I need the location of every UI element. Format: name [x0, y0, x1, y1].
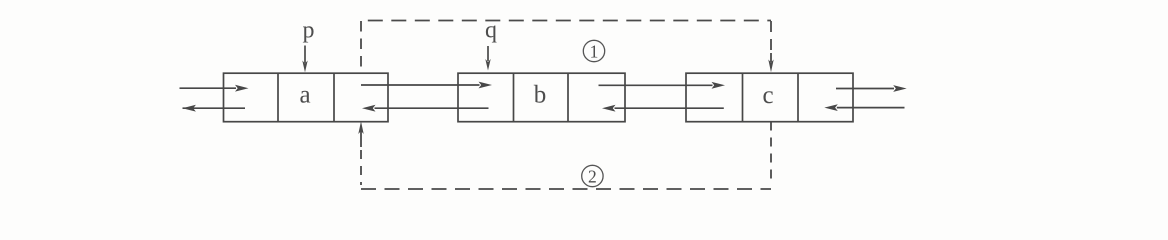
svg-text:p: p	[303, 18, 315, 44]
svg-text:2: 2	[588, 167, 597, 187]
svg-text:1: 1	[590, 42, 599, 62]
svg-text:a: a	[299, 82, 310, 109]
svg-text:b: b	[534, 82, 547, 109]
svg-text:c: c	[762, 82, 773, 109]
svg-text:q: q	[485, 18, 497, 44]
